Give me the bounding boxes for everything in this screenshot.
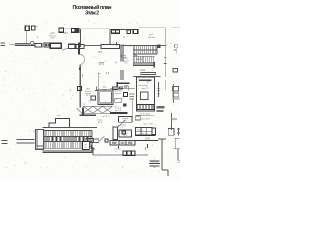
corridor door diagonal bbox=[77, 108, 84, 116]
wing bottom line bbox=[93, 154, 148, 156]
door swing diagonal bottom bbox=[99, 136, 105, 141]
svg-text:переплан: переплан bbox=[150, 162, 158, 164]
tick right wall bbox=[96, 87, 98, 90]
bottom band long rect bbox=[110, 141, 135, 145]
far right edge marks bbox=[177, 128, 179, 136]
corner tick bbox=[118, 146, 120, 149]
porch bottom double line bbox=[43, 151, 93, 153]
porch hatch band borders bbox=[43, 130, 93, 148]
small rect right bbox=[173, 69, 177, 72]
porch step polygon bbox=[49, 119, 69, 128]
bottom room box with text bbox=[119, 130, 131, 137]
left entry corner lines bbox=[37, 146, 45, 148]
svg-text:16.9: 16.9 bbox=[98, 52, 103, 54]
right L boundary bbox=[158, 139, 168, 176]
stairs flight 2 hatch bbox=[134, 56, 153, 63]
scan noise speckle dark bbox=[4, 24, 178, 173]
tick x116.5 bbox=[116, 42, 118, 45]
shaft square D dark bbox=[112, 30, 116, 33]
bottom window left dark panes bbox=[86, 139, 93, 143]
corridor wall line bbox=[84, 44, 101, 46]
porch hatch row A bbox=[43, 130, 92, 136]
svg-text:Этаж 2: Этаж 2 bbox=[85, 11, 99, 17]
vertical x128 bbox=[127, 86, 129, 91]
stairs flight 1 borders bbox=[133, 46, 157, 54]
wall stub bbox=[113, 127, 118, 140]
svg-text:выс. 2.70: выс. 2.70 bbox=[143, 123, 153, 125]
three squares bbox=[123, 151, 127, 155]
door swing diagonal bbox=[62, 48, 69, 50]
central wall lower double bbox=[79, 65, 80, 108]
svg-text:Кухня: Кухня bbox=[115, 93, 122, 95]
porch hatch row B dark bbox=[43, 136, 92, 141]
shaft square F bbox=[127, 30, 131, 34]
bottom right table box bbox=[135, 127, 152, 135]
central wall upper stub bbox=[78, 43, 80, 55]
lattice X band bbox=[83, 106, 113, 113]
right edge wall lower bbox=[171, 113, 173, 130]
right column wall bbox=[157, 82, 159, 97]
lattice left junction blob bbox=[82, 107, 84, 115]
window sill big rect bbox=[101, 45, 120, 49]
bottom long dark line bbox=[134, 139, 166, 141]
svg-text:Жилая: Жилая bbox=[148, 37, 156, 39]
bottom room top line bbox=[133, 76, 161, 78]
inner square bbox=[141, 92, 149, 100]
faint top wall right bbox=[139, 27, 166, 29]
top-left cabinet square 2 bbox=[31, 26, 34, 30]
tick right of square 2 bbox=[36, 25, 38, 27]
porch band right border bbox=[91, 130, 93, 152]
left entry box bbox=[35, 130, 43, 150]
left wall dark band bbox=[15, 45, 42, 47]
dark band in room bbox=[137, 105, 154, 110]
right wall door marks bbox=[164, 58, 167, 64]
square room bbox=[98, 90, 113, 104]
stair newel dark bbox=[154, 62, 155, 67]
bottom-left dim mark = bbox=[1, 141, 7, 144]
lodge left wall lower bbox=[121, 70, 123, 80]
door mark lodge bbox=[122, 55, 126, 57]
small box left of room bbox=[91, 96, 96, 100]
door diagonal bbox=[118, 120, 125, 128]
stairs right wall bbox=[156, 46, 158, 54]
dark bar below lattice bbox=[80, 115, 97, 117]
top band shaft square B bbox=[71, 29, 75, 33]
left wall double line bbox=[9, 43, 42, 46]
top band dark square C bbox=[75, 28, 79, 32]
wall vertical x80 bbox=[79, 29, 81, 47]
porch hatch row C bbox=[43, 142, 92, 149]
window band rect 4 double cell bbox=[68, 45, 84, 49]
dark bar bbox=[110, 112, 128, 114]
room interior marks top bbox=[139, 79, 152, 80]
small dark rect bbox=[105, 139, 108, 142]
svg-text:14.9: 14.9 bbox=[140, 69, 145, 72]
svg-text:пр. 4.6: пр. 4.6 bbox=[115, 110, 122, 112]
hinge marks bbox=[79, 67, 81, 70]
right wall top line bbox=[161, 45, 167, 47]
lodge top wall bbox=[121, 45, 161, 47]
left door circle bbox=[31, 41, 34, 44]
far right window mark bbox=[175, 45, 178, 48]
inter-flight mark bbox=[134, 55, 137, 56]
shaft square G bbox=[133, 30, 138, 34]
svg-text:16.6: 16.6 bbox=[63, 33, 68, 35]
window rects on line bbox=[112, 87, 118, 89]
shaft square E bbox=[116, 30, 120, 33]
svg-text:№10: №10 bbox=[123, 131, 129, 134]
bottom window left light cell bbox=[93, 139, 99, 143]
svg-text:№4 Жил: №4 Жил bbox=[114, 89, 123, 92]
wall box bbox=[77, 87, 81, 91]
box with text bbox=[118, 116, 132, 122]
small dark box right bbox=[122, 131, 126, 134]
scan noise speckle bbox=[2, 21, 177, 174]
far right tick bbox=[175, 48, 177, 54]
window band rect 3 bbox=[68, 44, 75, 49]
left wing wall vertical bbox=[92, 147, 94, 155]
tick T below line bbox=[146, 144, 148, 148]
svg-text:Жилая: Жилая bbox=[85, 91, 92, 93]
stairs flight 1 hatch bbox=[135, 46, 156, 54]
apostrophe bbox=[144, 147, 146, 150]
svg-text:пл. 8.2: пл. 8.2 bbox=[102, 116, 109, 118]
bottom-left walls double lines bbox=[16, 140, 34, 144]
stairs landing lines bbox=[133, 64, 155, 65]
svg-text:пл.кв. 34.1: пл.кв. 34.1 bbox=[140, 113, 151, 115]
corridor wall vertical bbox=[98, 74, 100, 91]
svg-text:лестн: лестн bbox=[136, 59, 143, 61]
central door arc bbox=[80, 55, 85, 65]
left wall end tick bbox=[41, 43, 43, 47]
porch entry box bbox=[82, 141, 89, 149]
top band shaft square A bbox=[59, 28, 63, 32]
right wall vertical bbox=[165, 28, 167, 77]
right small rect top bbox=[168, 128, 174, 135]
svg-text:жил. 22.5: жил. 22.5 bbox=[140, 118, 150, 120]
left wing corner pieces bbox=[88, 142, 95, 149]
vertical line right of cluster bbox=[132, 99, 134, 117]
faint top wall far right bbox=[172, 27, 180, 29]
stairs flight 2 borders bbox=[133, 56, 154, 63]
top wall x110-135 bbox=[110, 28, 134, 30]
right edge boxes bbox=[173, 87, 179, 91]
top-left cabinet square 1 bbox=[25, 26, 29, 30]
stair door dark bbox=[157, 45, 160, 48]
left wall end box bbox=[35, 44, 42, 48]
small rect below stairs bbox=[141, 73, 156, 75]
far right boundary bbox=[174, 138, 180, 160]
stairwell left wall bbox=[132, 46, 134, 66]
window band rect 1 bbox=[44, 43, 50, 47]
left dimension mark = bbox=[1, 43, 5, 45]
svg-text:ванна: ванна bbox=[137, 129, 143, 131]
mark x82 bbox=[82, 74, 84, 76]
top band faint top wall bbox=[60, 28, 110, 30]
top window line bbox=[110, 87, 135, 89]
right column text rows bbox=[129, 94, 135, 99]
band dark panes bbox=[112, 142, 117, 144]
lodge left wall double upper bbox=[121, 45, 123, 62]
svg-text:жил. 12: жил. 12 bbox=[141, 88, 149, 90]
top-left wall vertical bbox=[25, 31, 27, 44]
dark corner blob bbox=[116, 82, 118, 88]
porch top long line bbox=[43, 127, 98, 129]
wall vertical x110 bbox=[109, 29, 111, 44]
table right cell bbox=[152, 128, 156, 135]
svg-text:пл 1.4: пл 1.4 bbox=[115, 148, 122, 150]
bottom room rect bbox=[137, 77, 155, 111]
window band rect 2 bbox=[50, 43, 61, 48]
